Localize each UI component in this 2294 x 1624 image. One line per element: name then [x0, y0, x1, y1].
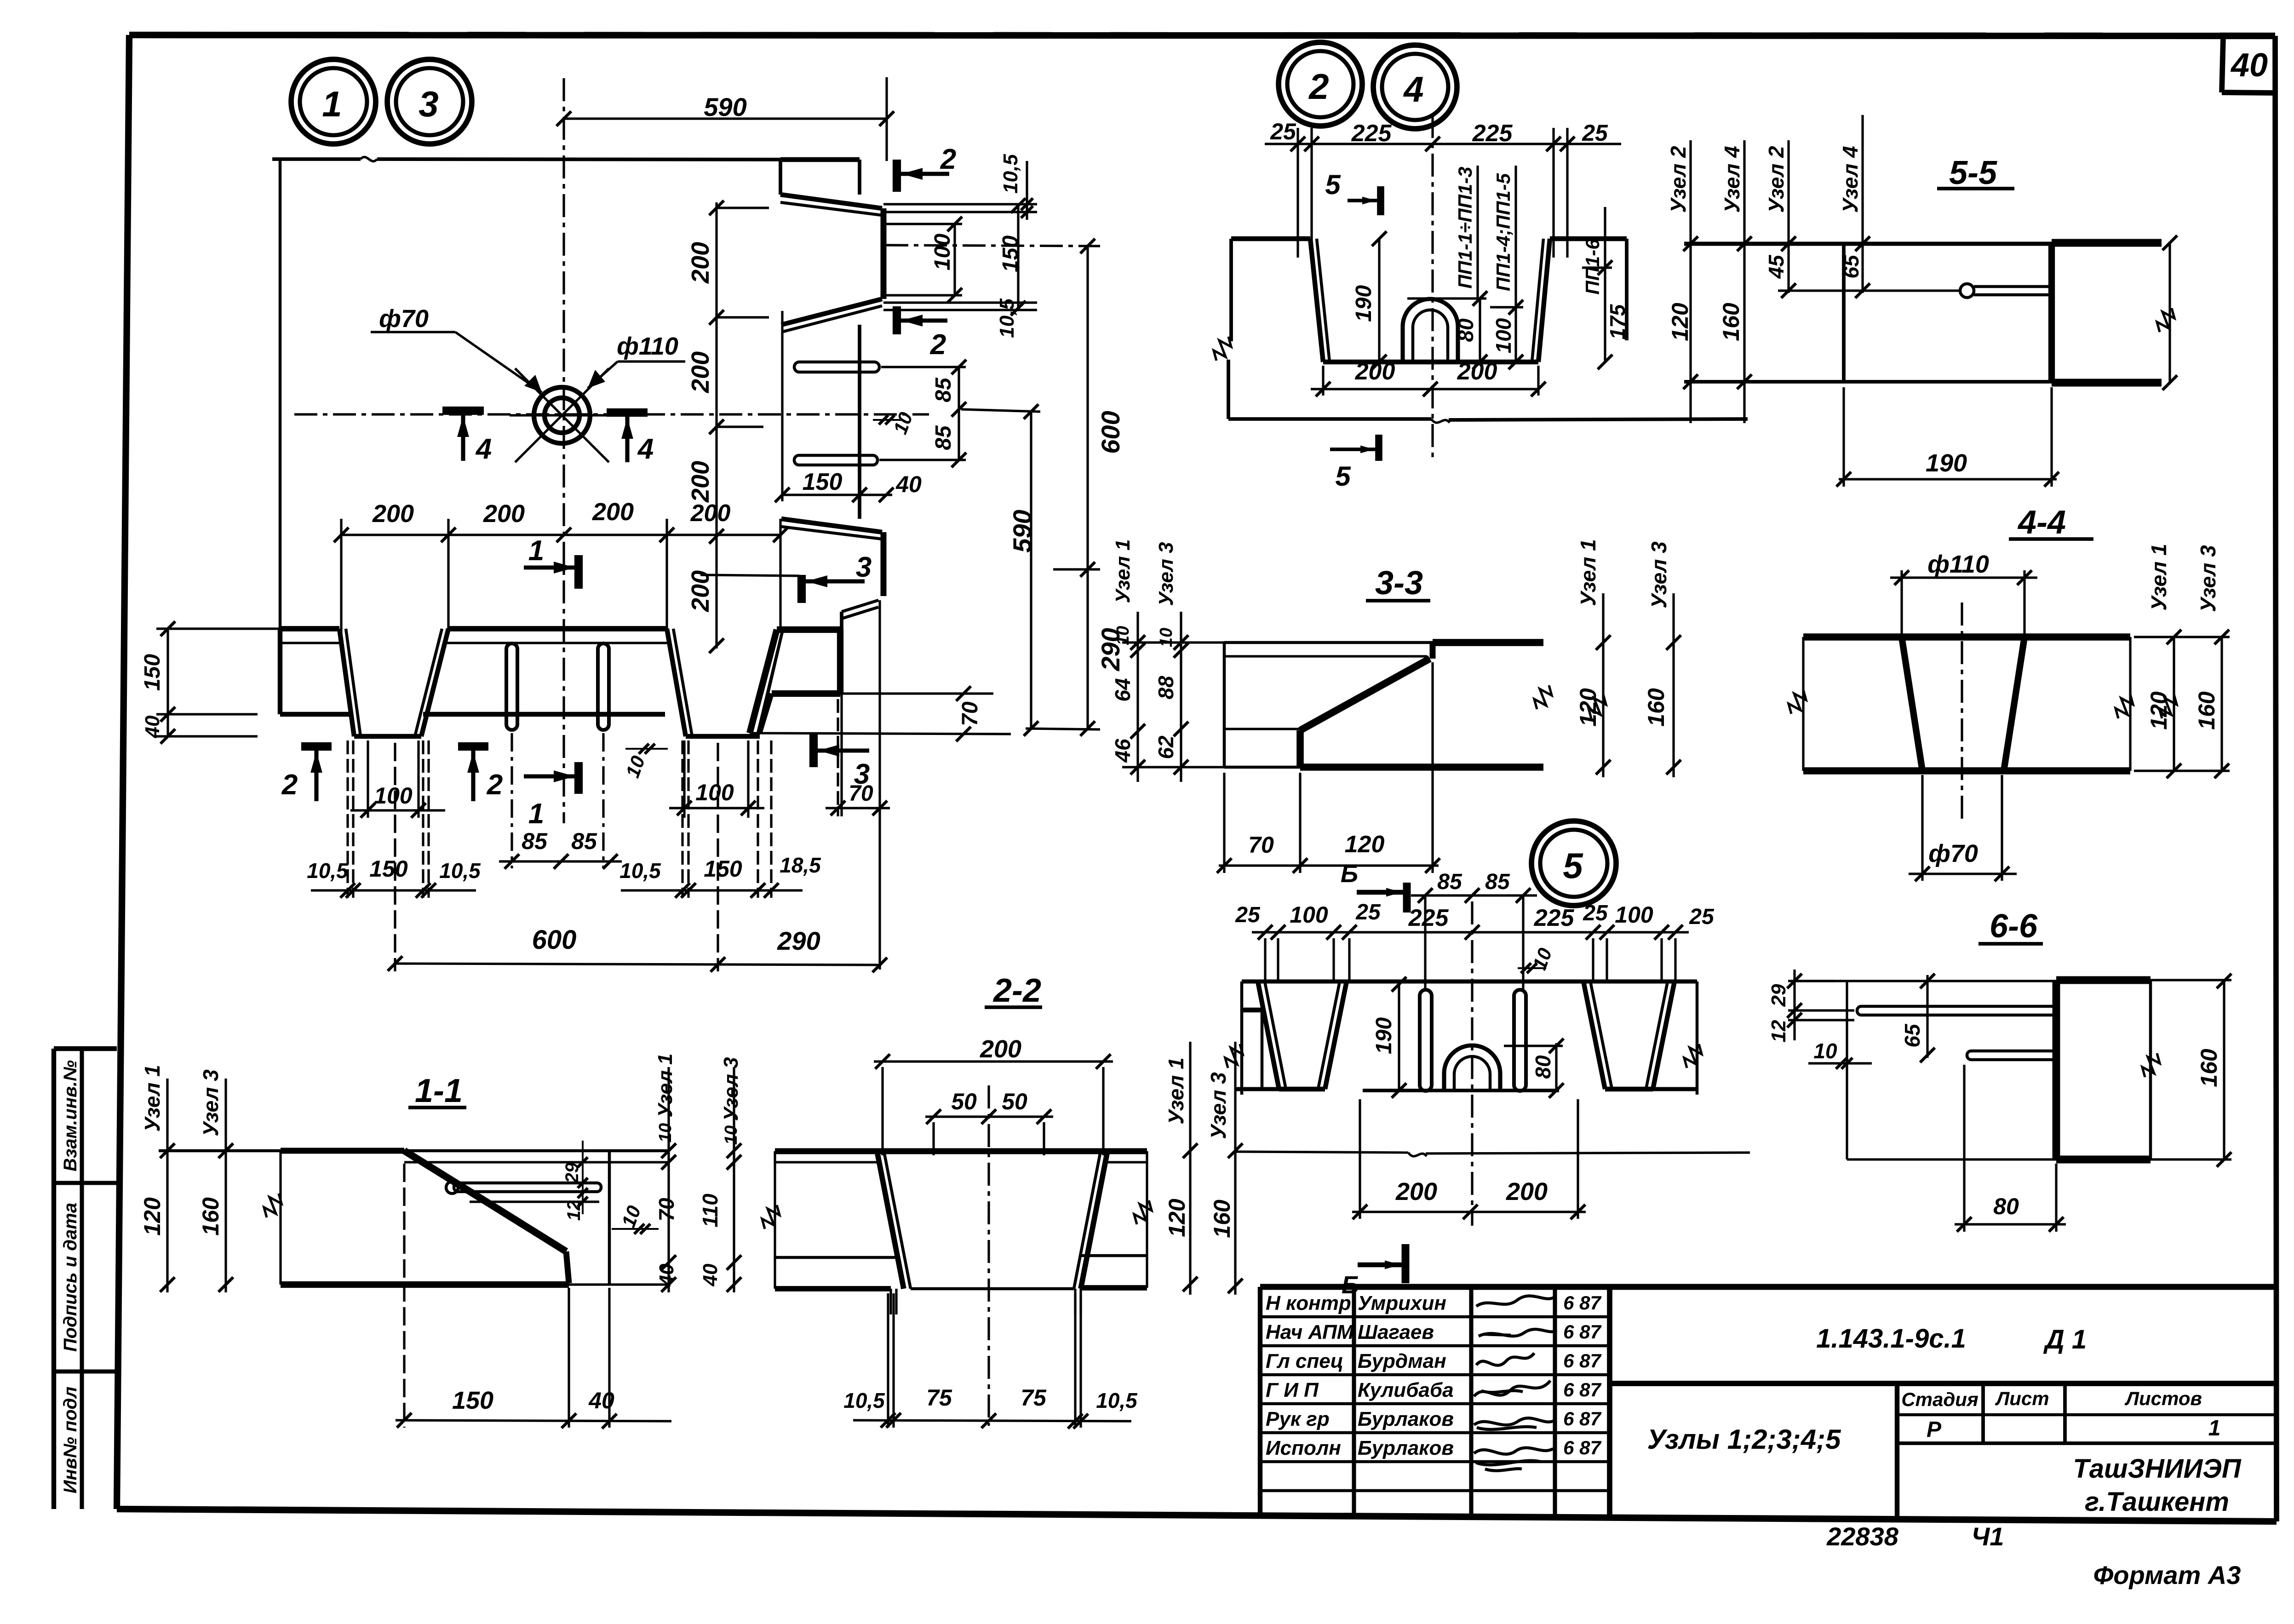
- 4-4 hole: [1902, 637, 1922, 771]
- side view vertical dim 200x4: [715, 202, 717, 648]
- svg-text:6 87: 6 87: [1563, 1408, 1601, 1429]
- svg-text:70: 70: [1248, 832, 1274, 858]
- svg-text:200: 200: [1506, 1178, 1548, 1205]
- svg-text:6 87: 6 87: [1563, 1350, 1601, 1372]
- side view web: [858, 325, 861, 519]
- dim 100: [1514, 166, 1517, 362]
- dim 80 loop: [1479, 298, 1481, 362]
- 1-1 dim 10 pin: [612, 1228, 659, 1230]
- label ПП1-1-ПП1-3: [1476, 166, 1479, 299]
- svg-text:40: 40: [141, 715, 164, 738]
- svg-text:Гл спец: Гл спец: [1266, 1350, 1343, 1372]
- side view dims right: [883, 203, 1037, 205]
- elevation dim 85/85: [499, 860, 622, 862]
- svg-text:Узлы 1;2;3;4;5: Узлы 1;2;3;4;5: [1647, 1424, 1842, 1455]
- anchor U-loop: [1403, 299, 1458, 362]
- svg-text:50: 50: [951, 1089, 977, 1114]
- node2/4 top dim 25/225/225/25: [1265, 143, 1621, 145]
- svg-text:Г И П: Г И П: [1266, 1379, 1319, 1401]
- svg-text:225: 225: [1351, 120, 1392, 147]
- svg-text:Листов: Листов: [2124, 1388, 2202, 1409]
- 2-2 feet: [889, 1289, 892, 1314]
- svg-text:Стадия: Стадия: [1901, 1389, 1978, 1410]
- svg-text:40: 40: [699, 1263, 722, 1286]
- dim 175: [1604, 207, 1606, 362]
- svg-text:175: 175: [1606, 304, 1629, 339]
- svg-text:Узел 3: Узел 3: [720, 1057, 742, 1121]
- svg-text:85: 85: [1485, 870, 1510, 894]
- node circle 3: [387, 59, 472, 144]
- 5-5 dim 190: [1842, 387, 1845, 487]
- node2/4 right edge: [1625, 239, 1629, 340]
- title block right sub-table: [1895, 1383, 1899, 1520]
- svg-text:1-1: 1-1: [415, 1073, 463, 1109]
- svg-text:85: 85: [522, 828, 548, 854]
- svg-text:18,5: 18,5: [780, 853, 821, 877]
- dim 590 column: [1030, 412, 1032, 729]
- 4-4 slab: [1803, 633, 2130, 641]
- 2-2 centerline: [987, 1085, 990, 1426]
- node5 left break edge: [1240, 981, 1244, 1095]
- svg-text:Узел 4: Узел 4: [1720, 146, 1744, 212]
- svg-text:10: 10: [1813, 1039, 1837, 1063]
- svg-text:Узел 3: Узел 3: [199, 1069, 223, 1136]
- svg-text:100: 100: [1615, 902, 1653, 928]
- side view top face: [780, 157, 860, 162]
- plan left edge: [279, 159, 282, 629]
- svg-text:40: 40: [895, 471, 922, 497]
- elevation thin 10-line: [280, 642, 343, 644]
- svg-text:50: 50: [1002, 1089, 1027, 1114]
- elevation dim 200x4: [341, 534, 780, 536]
- svg-text:Узел 3: Узел 3: [2196, 545, 2220, 612]
- elevation trough 2: [667, 629, 686, 736]
- svg-text:150: 150: [452, 1387, 493, 1414]
- svg-text:160: 160: [2196, 1049, 2222, 1087]
- plan vertical centerline / section 1 axis: [562, 78, 565, 823]
- 2-2 bottom dims: [853, 1420, 1131, 1421]
- title block main divider: [1607, 1287, 1612, 1519]
- svg-text:120: 120: [139, 1197, 165, 1236]
- 1-1 right dim cols: [667, 1067, 670, 1292]
- svg-text:200: 200: [483, 500, 525, 528]
- svg-text:160: 160: [1718, 303, 1744, 341]
- svg-text:ф110: ф110: [617, 333, 678, 360]
- svg-text:5: 5: [1563, 845, 1583, 886]
- side view rib1: [780, 195, 882, 208]
- page number box: [2222, 37, 2223, 92]
- elevation bottom face: [280, 712, 352, 717]
- svg-text:1: 1: [322, 84, 342, 124]
- node5 dim 80: [1555, 1043, 1557, 1090]
- node circle 4: [1373, 45, 1457, 129]
- node5 top dim row: [1252, 931, 1689, 933]
- svg-text:200: 200: [592, 498, 634, 526]
- svg-text:2: 2: [281, 769, 298, 801]
- svg-text:200: 200: [1457, 358, 1497, 385]
- dim 600/290 column: [1086, 246, 1089, 729]
- svg-text:200: 200: [687, 351, 714, 393]
- svg-text:190: 190: [1372, 1017, 1396, 1054]
- section mark 2 lower (side view): [893, 306, 901, 334]
- svg-text:10: 10: [656, 1123, 675, 1142]
- svg-text:190: 190: [1926, 449, 1967, 477]
- elevation dim 150/40 left: [166, 629, 169, 736]
- 6-6 upper pin: [1857, 1006, 2056, 1015]
- 3-3 bottom dim 70/120: [1219, 864, 1439, 867]
- elevation dim 100 trough2: [669, 807, 764, 809]
- 2-2 bottom face: [775, 1286, 891, 1291]
- svg-text:Ч1: Ч1: [1972, 1522, 2004, 1551]
- 2-2 break edges: [774, 1151, 776, 1289]
- svg-text:Узел 3: Узел 3: [1647, 541, 1671, 608]
- svg-text:4: 4: [1403, 69, 1423, 109]
- title block signature table verticals: [1352, 1287, 1356, 1518]
- 1-1 top ref line: [159, 1149, 668, 1153]
- svg-text:25: 25: [1270, 119, 1296, 144]
- 3-3 outline: [1224, 641, 1433, 644]
- svg-text:Подпись и дата: Подпись и дата: [60, 1203, 80, 1352]
- svg-text:Узел 1: Узел 1: [654, 1053, 677, 1117]
- sheet border frame: [129, 35, 2275, 36]
- node circle 2: [1279, 42, 1362, 126]
- hole phi70/phi110: [534, 387, 590, 443]
- svg-text:6-6: 6-6: [1990, 908, 2038, 945]
- svg-text:Р: Р: [1927, 1417, 1942, 1442]
- svg-text:160: 160: [1643, 688, 1669, 727]
- svg-text:Лист: Лист: [1995, 1388, 2049, 1409]
- signatures: [1476, 1296, 1554, 1306]
- svg-text:1: 1: [528, 798, 544, 830]
- node5 U loop: [1444, 1045, 1500, 1090]
- section mark 5 lower: [1375, 435, 1382, 461]
- section mark 3 lower: [809, 734, 818, 767]
- node2/4 bottom face: [1228, 417, 1431, 421]
- svg-text:45: 45: [1764, 254, 1788, 279]
- svg-text:Узел 1: Узел 1: [2147, 544, 2171, 610]
- node2/4 left edge with break: [1229, 239, 1233, 341]
- svg-text:Бурлаков: Бурлаков: [1358, 1437, 1454, 1459]
- dim 70 right: [956, 686, 971, 701]
- section mark 3 upper: [797, 575, 806, 603]
- svg-text:Узел 3: Узел 3: [1155, 542, 1177, 606]
- svg-text:40: 40: [2230, 47, 2268, 84]
- svg-text:200: 200: [372, 500, 414, 528]
- svg-text:200: 200: [687, 461, 714, 503]
- side view pin2: [794, 455, 877, 465]
- svg-text:225: 225: [1472, 120, 1513, 147]
- svg-text:70: 70: [958, 701, 982, 726]
- section mark 2 upper (side view): [893, 160, 901, 192]
- svg-text:80: 80: [1993, 1194, 2019, 1219]
- side view rib2: [781, 519, 882, 532]
- 6-6 top ref line: [1791, 980, 2056, 982]
- svg-text:85: 85: [1437, 870, 1462, 894]
- 5-5 anchor pin: [1960, 284, 1974, 298]
- section mark 1 lower: [574, 762, 583, 794]
- node circle 5: [1531, 821, 1616, 906]
- 6-6 left ref col: [1846, 981, 1848, 1159]
- svg-text:Исполн: Исполн: [1266, 1437, 1341, 1459]
- svg-text:Инв№ подл: Инв№ подл: [60, 1387, 80, 1494]
- svg-text:75: 75: [1021, 1385, 1047, 1411]
- svg-text:4-4: 4-4: [2017, 504, 2066, 541]
- svg-text:150: 150: [140, 654, 165, 691]
- svg-text:46: 46: [1111, 739, 1135, 763]
- dim 590 top: [564, 117, 887, 120]
- svg-text:Бурдман: Бурдман: [1358, 1350, 1446, 1372]
- elevation dim 10,5/150/10,5: [311, 889, 476, 891]
- node2/4 dim 200/200: [1311, 388, 1538, 390]
- elevation top face: [280, 626, 339, 631]
- svg-text:10,5: 10,5: [439, 859, 481, 883]
- svg-text:Узел 1: Узел 1: [140, 1065, 164, 1131]
- svg-text:29: 29: [562, 1162, 582, 1183]
- svg-text:190: 190: [1352, 285, 1376, 322]
- Б mark lower: [1402, 1244, 1410, 1283]
- node2/4 centerline: [1431, 115, 1434, 462]
- svg-text:590: 590: [1008, 510, 1037, 552]
- svg-text:100: 100: [1491, 318, 1515, 353]
- dim 85/85 node5: [1411, 894, 1537, 896]
- svg-text:6 87: 6 87: [1563, 1379, 1601, 1400]
- svg-text:64: 64: [1111, 678, 1135, 701]
- svg-text:Узел 1: Узел 1: [1164, 1057, 1188, 1124]
- svg-text:200: 200: [1355, 358, 1395, 385]
- svg-text:70: 70: [654, 1198, 678, 1222]
- side view lower slant: [842, 600, 878, 612]
- svg-text:ПП1-1÷ПП1-3: ПП1-1÷ПП1-3: [1454, 166, 1476, 288]
- svg-text:2: 2: [487, 769, 503, 801]
- svg-text:590: 590: [704, 92, 746, 121]
- svg-text:Узел 2: Узел 2: [1764, 146, 1788, 213]
- elevation dim 70 right: [826, 807, 890, 809]
- elevation trough 1: [339, 629, 354, 736]
- svg-text:ПП1-6: ПП1-6: [1582, 239, 1603, 295]
- svg-text:62: 62: [1154, 735, 1178, 759]
- svg-text:ф70: ф70: [1928, 840, 1978, 867]
- svg-text:200: 200: [1395, 1178, 1437, 1205]
- svg-text:88: 88: [1154, 676, 1178, 700]
- 3-3 left dim col 1: [1136, 612, 1139, 782]
- svg-text:3: 3: [854, 758, 870, 790]
- svg-text:г.Ташкент: г.Ташкент: [2085, 1487, 2229, 1517]
- svg-text:Бурлаков: Бурлаков: [1358, 1408, 1454, 1430]
- 5-5 left edge: [1842, 244, 1846, 382]
- plan horizontal centerline: [294, 413, 929, 415]
- section mark 4 left: [442, 407, 484, 415]
- svg-text:Шагаев: Шагаев: [1358, 1321, 1434, 1343]
- elevation dim 600/290: [395, 964, 880, 965]
- svg-text:225: 225: [1408, 905, 1449, 931]
- node5 left rib: [1258, 981, 1279, 1089]
- svg-text:3: 3: [419, 84, 438, 124]
- svg-text:25: 25: [1355, 900, 1381, 924]
- svg-text:120: 120: [1667, 303, 1693, 341]
- 1-1 bottom dims: [396, 1420, 671, 1421]
- svg-text:200: 200: [690, 500, 731, 527]
- svg-text:Взам.инв.№: Взам.инв.№: [60, 1060, 80, 1171]
- svg-text:1: 1: [2208, 1416, 2221, 1440]
- elevation dim 10: [625, 748, 668, 750]
- node5 dim 190: [1398, 981, 1400, 1090]
- узел label columns: [1689, 140, 1692, 423]
- svg-text:25: 25: [1689, 905, 1715, 929]
- 4-4 centerline: [1961, 603, 1963, 823]
- extension lines right part: [840, 694, 843, 816]
- sidebar boxes: [52, 1049, 56, 1509]
- plan top edge line: [272, 157, 361, 161]
- node5 centerline: [1471, 901, 1473, 1226]
- svg-text:12: 12: [564, 1200, 584, 1221]
- svg-text:ф70: ф70: [379, 305, 429, 333]
- svg-text:4: 4: [637, 433, 654, 465]
- svg-text:12: 12: [1767, 1020, 1790, 1042]
- svg-text:Узел 2: Узел 2: [1666, 146, 1690, 213]
- 5-5 right break line: [2168, 243, 2171, 383]
- svg-text:Узел 1: Узел 1: [1112, 539, 1134, 603]
- svg-text:10,5: 10,5: [843, 1389, 885, 1412]
- svg-text:100: 100: [374, 783, 413, 809]
- section mark 2 right bottom: [458, 742, 488, 751]
- svg-text:ПП1-4;ПП1-5: ПП1-4;ПП1-5: [1492, 173, 1514, 291]
- title block signature table rows: [1260, 1315, 1610, 1319]
- elevation dim 100 trough1: [350, 809, 445, 811]
- svg-text:Кулибаба: Кулибаба: [1358, 1379, 1454, 1401]
- svg-text:ТашЗНИИЭП: ТашЗНИИЭП: [2073, 1454, 2242, 1484]
- 5-5 joint line: [2048, 243, 2055, 383]
- svg-text:200: 200: [687, 570, 714, 612]
- svg-text:1: 1: [528, 535, 544, 567]
- svg-text:1.143.1-9c.1: 1.143.1-9c.1: [1816, 1324, 1966, 1354]
- svg-text:290: 290: [777, 926, 820, 955]
- 1-1 dim 29/12: [582, 1141, 584, 1214]
- svg-text:100: 100: [1290, 902, 1328, 928]
- svg-text:200: 200: [687, 242, 714, 284]
- svg-text:75: 75: [926, 1385, 952, 1411]
- 3-3 left dim col 2: [1180, 612, 1182, 782]
- svg-text:2: 2: [1308, 66, 1329, 107]
- svg-text:5: 5: [1325, 169, 1341, 200]
- node5 reference line: [1235, 1152, 1408, 1153]
- node5 right break edge: [1653, 1087, 1697, 1091]
- svg-text:29: 29: [1767, 984, 1790, 1007]
- svg-text:Нач АПМ: Нач АПМ: [1266, 1321, 1354, 1343]
- svg-text:6 87: 6 87: [1563, 1321, 1601, 1343]
- 2-2 trough: [877, 1151, 904, 1289]
- section mark 4 right: [607, 408, 648, 417]
- svg-text:Б: Б: [1341, 860, 1358, 888]
- svg-text:150: 150: [803, 469, 843, 495]
- 5-5 top edge: [1684, 241, 2052, 246]
- svg-text:Узел 4: Узел 4: [1838, 146, 1862, 212]
- svg-text:Б: Б: [1342, 1271, 1359, 1299]
- node5 dim 10: [1518, 967, 1546, 969]
- svg-text:85: 85: [931, 377, 956, 402]
- svg-text:2-2: 2-2: [992, 972, 1041, 1009]
- svg-text:10: 10: [1157, 628, 1176, 647]
- svg-text:10,5: 10,5: [996, 298, 1018, 338]
- node5 dim 200/200: [1352, 1211, 1586, 1213]
- side view pin1: [794, 362, 879, 372]
- title block outline: [1260, 1284, 2276, 1290]
- svg-text:110: 110: [698, 1194, 722, 1228]
- 3-3 right ext cols: [1602, 593, 1604, 777]
- svg-text:85: 85: [931, 425, 956, 450]
- svg-text:80: 80: [1531, 1055, 1555, 1079]
- svg-text:25: 25: [1583, 901, 1608, 925]
- node5 underside: [1242, 979, 1697, 983]
- svg-text:4: 4: [475, 433, 492, 465]
- 2-2 step lines: [775, 1256, 898, 1259]
- svg-text:Узел 1: Узел 1: [1576, 539, 1600, 606]
- node5 trough floor: [1363, 1089, 1559, 1092]
- svg-text:3: 3: [856, 551, 872, 583]
- svg-text:100: 100: [695, 780, 734, 805]
- 6-6 lower pin: [1967, 1051, 2056, 1060]
- elevation pins: [506, 643, 517, 730]
- node2/4 trough slants: [1310, 239, 1323, 362]
- svg-text:5-5: 5-5: [1949, 155, 1997, 191]
- svg-text:25: 25: [1582, 120, 1608, 146]
- svg-text:600: 600: [1096, 411, 1125, 453]
- node5 right rib: [1583, 981, 1605, 1089]
- svg-text:600: 600: [532, 925, 577, 955]
- 6-6 block: [2056, 976, 2151, 984]
- node5 pins: [1420, 990, 1432, 1091]
- svg-text:10,5: 10,5: [1096, 1389, 1138, 1412]
- svg-text:5: 5: [1335, 461, 1351, 492]
- svg-text:ф110: ф110: [1927, 551, 1989, 578]
- svg-text:10,5: 10,5: [307, 859, 349, 883]
- svg-text:2: 2: [930, 329, 946, 361]
- svg-text:Д 1: Д 1: [2043, 1325, 2087, 1354]
- 6-6 dim 80: [1955, 1223, 2066, 1225]
- svg-text:225: 225: [1534, 905, 1575, 931]
- svg-text:22838: 22838: [1826, 1522, 1899, 1551]
- svg-text:200: 200: [980, 1035, 1021, 1063]
- edge tongue (узел 3): [777, 626, 840, 633]
- svg-text:6 87: 6 87: [1563, 1437, 1601, 1458]
- 6-6 dim 65: [1926, 975, 1928, 1058]
- svg-text:40: 40: [655, 1263, 678, 1286]
- section mark 1 upper: [574, 555, 583, 589]
- 1-1 left label cols: [166, 1079, 168, 1292]
- elevation left edge: [278, 629, 282, 714]
- 6-6 dims 29/12: [1793, 970, 1795, 1040]
- svg-text:3-3: 3-3: [1375, 565, 1423, 602]
- svg-text:2: 2: [940, 143, 956, 175]
- svg-text:65: 65: [1900, 1023, 1924, 1048]
- 4-4 right dims: [2173, 637, 2175, 771]
- svg-text:120: 120: [1164, 1199, 1190, 1237]
- svg-text:10: 10: [722, 1125, 741, 1145]
- svg-text:100: 100: [930, 234, 955, 270]
- svg-text:160: 160: [1209, 1199, 1235, 1238]
- node circle 1: [291, 59, 376, 144]
- 6-6 dim 160: [2223, 981, 2225, 1159]
- svg-text:Рук гр: Рук гр: [1266, 1408, 1330, 1430]
- svg-text:Н контр: Н контр: [1266, 1292, 1351, 1314]
- node2/4 top faces: [1231, 236, 1310, 241]
- dim 190: [1378, 239, 1380, 362]
- svg-text:6 87: 6 87: [1563, 1292, 1601, 1314]
- 1-1 thin lines: [404, 1161, 668, 1163]
- svg-text:Умрихин: Умрихин: [1358, 1292, 1446, 1314]
- svg-text:120: 120: [1345, 831, 1385, 858]
- svg-text:85: 85: [571, 828, 597, 854]
- section mark 2 left bottom: [301, 742, 332, 751]
